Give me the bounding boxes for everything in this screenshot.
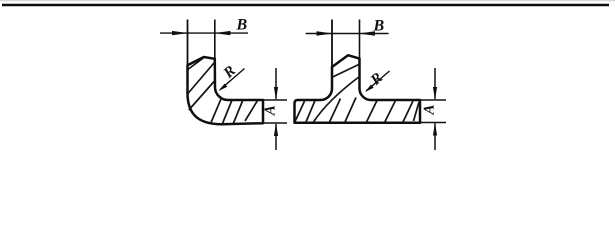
left figure: outline of L-angle xyxy=(188,57,264,124)
right figure: hatch line f3 xyxy=(345,98,356,123)
left figure: label R xyxy=(222,65,236,79)
right figure: hatch line f1 xyxy=(306,101,315,123)
right figure: hatch line f4 xyxy=(367,101,378,123)
right figure: B arrow left xyxy=(317,31,333,35)
right figure: hatch line end-left xyxy=(295,101,305,122)
right figure: label B xyxy=(373,20,383,31)
right figure: A extension line bottom xyxy=(421,122,447,124)
right figure: B extension line left xyxy=(331,20,333,68)
left figure: hatch line L4 (break diagonal) xyxy=(245,101,258,122)
top rule xyxy=(2,4,609,6)
right figure: A dimension line upper xyxy=(434,68,436,99)
right figure: label A xyxy=(424,105,434,115)
right figure: hatch line f6 xyxy=(403,101,413,123)
right figure: hatch line f2 xyxy=(330,99,341,123)
left figure: hatch line B xyxy=(188,62,215,94)
right figure: hatch line S1 (long, through fillet into stem) xyxy=(314,77,360,123)
right figure: A dimension line lower xyxy=(434,124,436,151)
left figure: B extension line left xyxy=(187,20,189,67)
right figure: R leader arrowhead xyxy=(365,85,374,92)
left figure: B arrow right xyxy=(214,31,230,35)
left figure: hatch line L1 xyxy=(211,98,222,123)
left figure: hatch line L2 xyxy=(223,99,233,124)
left figure: label B xyxy=(236,19,246,30)
right figure: B arrow right xyxy=(359,31,375,35)
left figure: A dimension line upper xyxy=(275,68,277,99)
right figure: A arrow down xyxy=(433,87,437,100)
right figure: outline of T-bar xyxy=(295,55,421,123)
left figure: hatch line C xyxy=(189,81,215,110)
right figure: R leader line xyxy=(366,71,389,91)
right figure: label R xyxy=(369,72,383,86)
right figure: A arrow up xyxy=(433,123,437,136)
left figure: B extension line right xyxy=(214,20,216,60)
left figure: A extension line bottom xyxy=(264,122,288,124)
left figure: A extension line top xyxy=(264,99,288,101)
left figure: R leader arrowhead xyxy=(219,84,228,91)
right figure: hatch line S2 in stem xyxy=(332,64,360,78)
left figure: B dimension line xyxy=(160,32,248,34)
left figure: A arrow down xyxy=(274,87,278,100)
right figure: B extension line right xyxy=(359,20,361,60)
left figure: A arrow up xyxy=(274,123,278,136)
left figure: B arrow left xyxy=(172,31,188,35)
right figure: A extension line top xyxy=(421,99,447,101)
right figure: hatch line end-right (break diagonal) xyxy=(414,102,420,121)
right figure: B dimension line xyxy=(306,33,389,35)
faint top scan line xyxy=(0,0,615,2)
left figure: hatch line L3 xyxy=(233,100,243,124)
left figure: hatch line A xyxy=(188,58,204,70)
left figure: A dimension line lower xyxy=(275,124,277,150)
left figure: R leader line xyxy=(220,69,245,90)
left figure: label A xyxy=(265,106,275,116)
right figure: hatch line f5 xyxy=(385,101,396,123)
